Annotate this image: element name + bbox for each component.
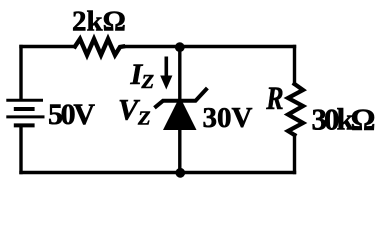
svg-text:30V: 30V [203, 102, 253, 134]
node junction bottom [175, 168, 185, 178]
svg-text:2kΩ: 2kΩ [72, 6, 126, 38]
battery B1 plate long top [6, 99, 43, 102]
svg-text:R: R [265, 81, 283, 116]
wire right lower [293, 135, 296, 173]
diode D1 zener cathode bar [156, 90, 206, 107]
svg-text:Z: Z [141, 71, 155, 93]
resistor R 30kΩ zigzag [288, 84, 303, 135]
node junction top [175, 42, 185, 52]
resistor R1 2kΩ zigzag [75, 39, 123, 55]
wire right upper [293, 47, 296, 85]
wire zener branch upper [178, 47, 181, 103]
wire zener branch lower [178, 128, 181, 173]
battery B1 plate long [6, 115, 44, 118]
svg-text:30kΩ: 30kΩ [312, 102, 376, 137]
wire left lower [19, 127, 22, 173]
svg-text:50V: 50V [48, 98, 95, 131]
wire top-right segment [123, 45, 295, 48]
battery B1 plate short [14, 107, 35, 111]
wire top-left segment [21, 45, 75, 48]
diode D1 zener triangle [163, 97, 197, 131]
svg-text:Z: Z [137, 108, 151, 130]
wire bottom [21, 171, 295, 174]
battery B1 plate short bottom [14, 123, 35, 127]
current arrow Iz shaft [165, 57, 169, 79]
wire left upper [19, 47, 22, 100]
current arrow Iz head [160, 76, 172, 90]
